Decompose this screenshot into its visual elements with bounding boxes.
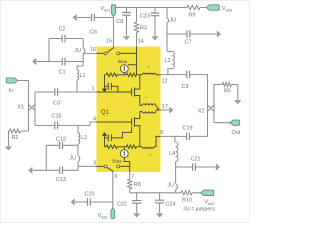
inductor L2 [77,125,79,132]
svg-text:R9: R9 [189,13,196,19]
svg-text:L: L [146,94,148,99]
svg-text:JU: JU [167,183,174,189]
svg-text:C22: C22 [117,202,127,208]
svg-text:7: 7 [131,174,134,180]
capacitor C8 [126,8,128,36]
svg-text:Out: Out [232,130,241,136]
svg-text:12: 12 [162,79,168,85]
svg-text:Bias: Bias [118,59,128,65]
capacitor C19 [187,133,190,141]
wire bias to pin 7 [124,158,129,173]
wire C3 row [35,91,97,93]
svg-text:9: 9 [160,130,163,136]
wire pin 5 [78,165,97,167]
IC highlight block Q1 [97,47,161,173]
svg-text:R5: R5 [224,89,231,95]
ground below C22 [133,213,140,217]
source inductor stage 1 [142,104,155,106]
svg-text:C1: C1 [59,70,66,76]
ground stage 1 [104,86,106,88]
ground below C23 [151,36,158,40]
svg-text:R10: R10 [182,198,192,204]
inductor L3 [167,51,172,53]
resistor R9 [187,5,200,9]
ground pin 17 [169,106,173,113]
source inductor stage 2 [142,111,155,113]
capacitor C24 [159,193,161,213]
svg-text:14: 14 [138,39,144,45]
connector Out [230,120,240,125]
jumper JU bottom left [77,145,79,170]
svg-text:L4: L4 [169,151,175,157]
resistor R2 [9,131,29,146]
inductor L4 [174,136,177,142]
resistor network stage 1 [105,73,140,75]
svg-text:C20: C20 [85,192,95,198]
wire pin 14 to bias [128,47,137,75]
resistor R3 [136,8,138,47]
wire pin 12 output [161,74,187,76]
wire C16 row [35,122,97,125]
capacitor C23 [154,8,156,36]
resistor R8 on pin 7 [129,172,131,193]
wire top supply rail [116,7,207,9]
svg-text:L3: L3 [165,58,171,64]
svg-text:JU: JU [74,48,81,54]
ground stage 2 [104,136,106,138]
capacitor C21 [176,166,216,168]
svg-text:4: 4 [93,117,96,123]
resistor R10 [176,192,201,194]
ground right of C7 [217,30,221,37]
capacitor C6 [77,17,114,19]
capacitor C20 [75,201,113,203]
wire pin 17 [158,109,160,110]
jumper JU left [82,39,84,67]
switch pins 16/15 [97,47,137,54]
capacitor C16 [55,122,58,130]
svg-text:C23: C23 [140,14,150,20]
svg-text:C21: C21 [191,157,201,163]
wire In down [18,81,29,132]
svg-text:L1: L1 [80,73,86,79]
svg-text:C6: C6 [90,30,97,36]
svg-text:C24: C24 [166,202,176,208]
bypass capacitor stage 2 [105,127,132,147]
wire pin 6 down [112,172,114,208]
svg-text:Q1: Q1 [101,110,110,116]
svg-text:C3: C3 [53,101,60,107]
capacitor C22 [136,193,138,213]
svg-text:C7: C7 [185,40,192,46]
svg-text:6: 6 [115,174,118,180]
svg-text:L: L [148,64,150,69]
svg-text:16: 16 [90,47,96,53]
wire pin 16 [83,52,96,54]
ground left of C6 [73,14,77,21]
wire pin 4 to gate [97,121,132,123]
svg-text:R8: R8 [134,182,141,188]
coupler X1 [29,92,36,125]
jumper JU top right [166,8,168,52]
jumper JU bottom right [175,167,177,193]
wire Vdd1 to pin 15 [113,16,115,46]
capacitor C7 [167,33,217,35]
svg-text:JU: JU [69,156,76,162]
svg-text:L2: L2 [81,135,87,141]
resistor network stage 2 [105,147,140,150]
bias source U1b [120,150,128,158]
svg-text:Bias: Bias [112,158,122,164]
resistor R5 [214,85,222,91]
svg-text:JU = jumpers: JU = jumpers [183,207,215,213]
capacitor C2 loop top [49,38,83,40]
svg-text:15: 15 [106,39,112,45]
ground below R2 [5,146,12,150]
svg-text:C8: C8 [116,19,123,25]
wire bottom supply bus [130,192,176,194]
capacitor C3 [55,88,58,96]
capacitor C1 loop bottom [37,39,83,62]
ground left of C13 [28,167,32,174]
svg-text:1: 1 [92,86,95,92]
drain inductor stage 1 [142,73,156,75]
svg-text:In: In [9,88,14,94]
connector Vdd2 right [201,190,214,195]
transistor Q1a [132,87,135,96]
connector Vdd2 bottom [111,208,115,219]
ground below C8 [123,36,130,40]
svg-text:C12: C12 [56,137,66,143]
svg-text:C16: C16 [52,114,62,120]
capacitor C9 [187,71,190,79]
svg-text:L: L [150,152,152,157]
transistor Q1b [132,117,135,126]
svg-text:C2: C2 [59,27,66,33]
inductor L1 [77,66,83,70]
switch pins 5/6 [97,166,130,172]
ground left of C1 [32,58,36,65]
svg-text:C9: C9 [182,84,189,90]
svg-text:R3: R3 [140,26,147,32]
wire to Out [214,122,230,124]
svg-text:X1: X1 [17,105,24,111]
drain inductor stage 2 [142,147,154,148]
capacitor C13 [33,169,78,171]
ground below C24 [156,213,163,217]
svg-text:C19: C19 [183,126,193,132]
wire pin 9 [161,135,187,137]
bypass capacitor stage 1 [105,75,118,92]
coupler X2 [208,90,215,136]
svg-text:R2: R2 [12,135,19,141]
connector Vdd1 [112,5,116,17]
ground left of C20 [71,198,75,205]
svg-text:5: 5 [94,161,97,167]
connector Vdd3 [206,5,219,10]
svg-text:17: 17 [162,104,168,110]
svg-text:JU: JU [170,18,177,24]
capacitor C12 [46,145,78,170]
ground right of C21 [216,163,220,170]
svg-text:X2: X2 [198,109,205,115]
svg-text:C13: C13 [56,177,66,183]
ground below R5 [234,100,241,104]
connector In [6,78,18,83]
wire pin 1 to gate [97,91,132,93]
